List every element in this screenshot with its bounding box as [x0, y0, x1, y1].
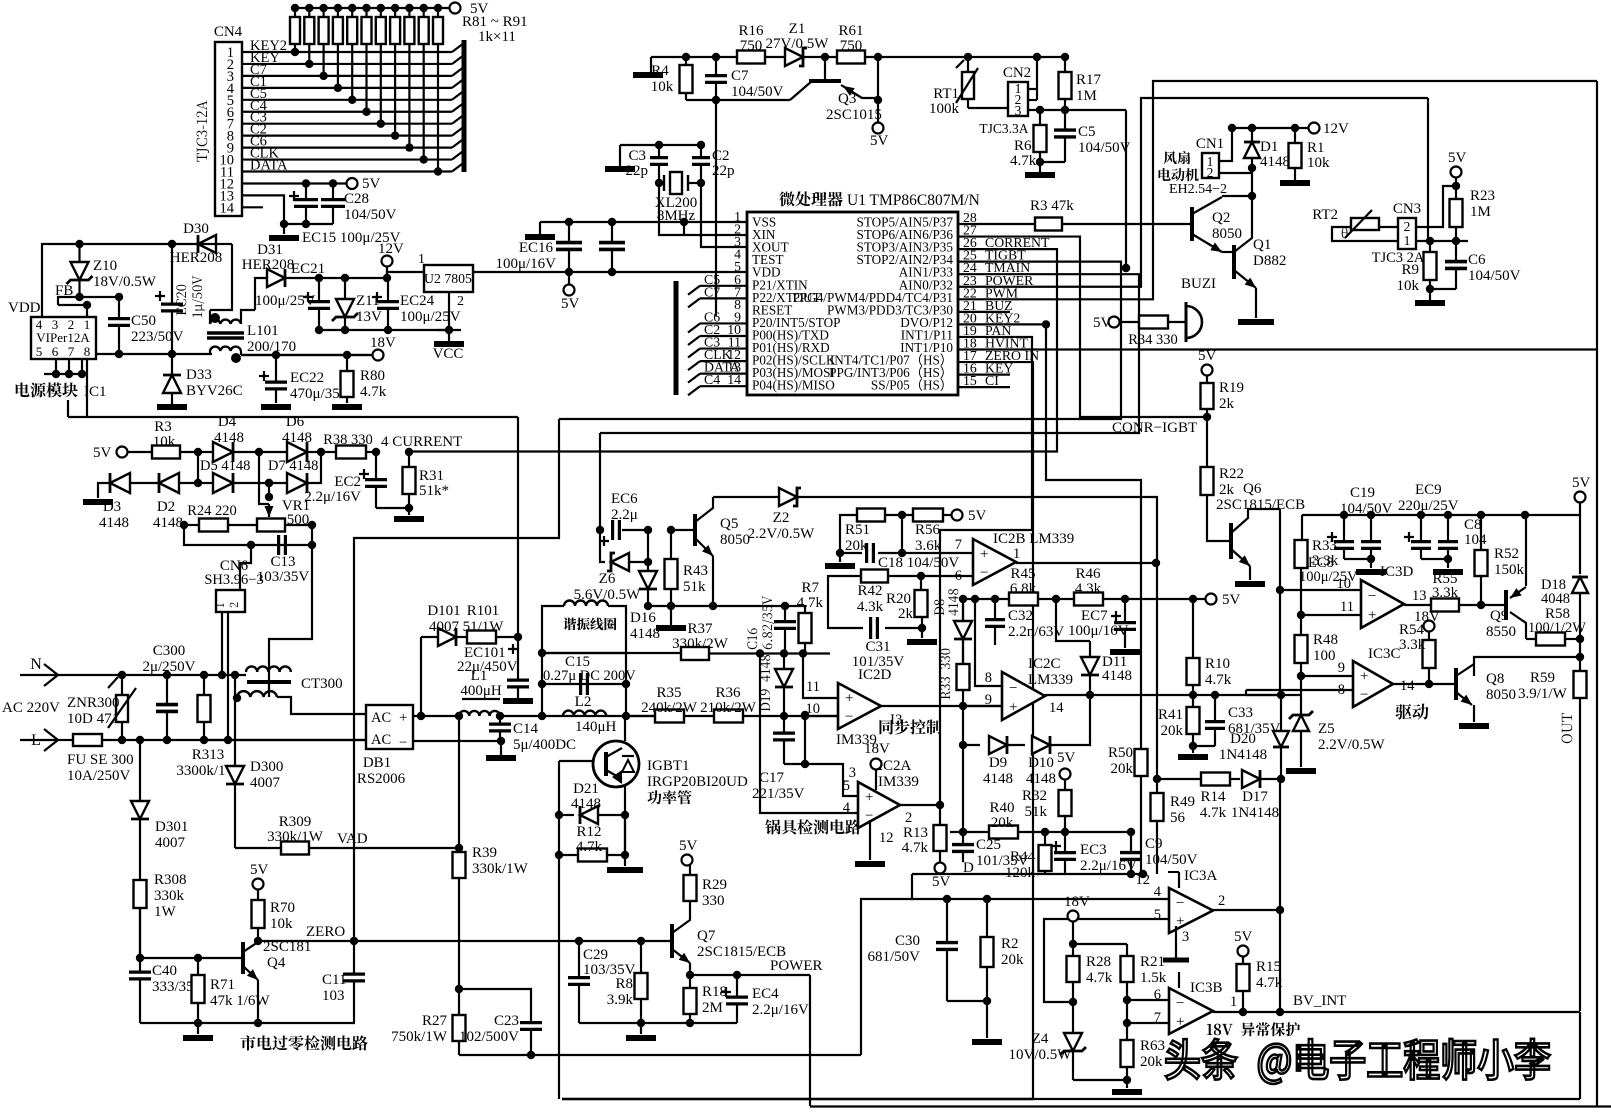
terminal 5V R15	[1238, 946, 1249, 957]
wire R27 C23 bottom	[459, 1054, 861, 1056]
svg-text:EC16: EC16	[519, 240, 554, 256]
wire IC2D pin11	[803, 654, 838, 699]
svg-text:R32: R32	[1022, 788, 1047, 804]
svg-text:Z5: Z5	[1318, 721, 1335, 737]
wire micro C4	[700, 385, 747, 387]
label drive	[1396, 704, 1429, 720]
svg-text:8050: 8050	[1212, 226, 1242, 242]
terminal 5V R29	[682, 855, 693, 866]
svg-text:5V: 5V	[1222, 592, 1241, 608]
svg-text:R45: R45	[1010, 566, 1035, 582]
wire pin25 TIGBT	[559, 262, 1121, 419]
node resistor R85 top	[348, 4, 356, 12]
resistor R40 20k	[989, 826, 1018, 839]
svg-text:IM339: IM339	[878, 774, 919, 790]
ground R6	[1025, 172, 1055, 178]
resistor R36 210k/2W	[714, 710, 743, 723]
terminal 5V R19	[1202, 365, 1213, 376]
svg-text:R56: R56	[915, 522, 941, 538]
svg-text:4148: 4148	[153, 515, 183, 531]
capacitor C33	[1205, 720, 1225, 723]
resistor R91	[433, 17, 443, 44]
ground R31	[394, 516, 424, 522]
wire IC2C pin8	[975, 599, 1002, 686]
wire CN4 pin4 row C1	[242, 87, 452, 89]
thermistor RT2	[1351, 218, 1379, 230]
wire top rail y57	[651, 56, 1065, 58]
zener Z5	[1300, 676, 1302, 714]
svg-text:7: 7	[955, 537, 962, 553]
capacitor C8	[1438, 540, 1458, 543]
diode D4 4148	[198, 451, 214, 453]
svg-text:R101: R101	[467, 603, 500, 619]
resistor R24 220	[180, 521, 188, 529]
op-amp IC3B	[1169, 988, 1213, 1034]
wire CT300 secondary out	[277, 697, 366, 714]
svg-text:10D 471: 10D 471	[67, 711, 119, 727]
svg-text:56: 56	[1170, 810, 1186, 826]
svg-text:18V: 18V	[864, 741, 890, 757]
svg-text:4 CURRENT: 4 CURRENT	[381, 434, 462, 450]
svg-text:R37: R37	[687, 621, 713, 637]
svg-text:1: 1	[1404, 233, 1411, 248]
junction R89 row	[405, 143, 413, 151]
wire DB1 + out	[413, 715, 459, 717]
svg-text:C300: C300	[153, 643, 186, 659]
IC U1 TMP86C807 box	[747, 212, 958, 395]
resistor R20 2k	[915, 590, 928, 617]
capacitor C32	[985, 618, 1005, 621]
transistor Q2 8050	[1190, 207, 1194, 241]
svg-text:EC3: EC3	[1080, 842, 1107, 858]
svg-text:51k: 51k	[1025, 804, 1048, 820]
resistor R49 56	[1151, 793, 1164, 821]
svg-text:+: +	[865, 790, 873, 806]
resistor R70 10k	[252, 900, 265, 928]
wire bottom border 1	[562, 1098, 1580, 1100]
svg-text:11: 11	[1340, 599, 1354, 615]
svg-text:13: 13	[1412, 588, 1427, 604]
capacitor C14	[489, 722, 511, 725]
node FB	[75, 293, 83, 301]
rectifier DB1 RS2006	[366, 705, 413, 749]
wire CN4 pin12 5V	[242, 182, 352, 184]
wire R82 bottom	[308, 44, 310, 64]
svg-text:C8: C8	[1464, 517, 1482, 533]
wire Q7 base row	[354, 940, 672, 942]
svg-text:4.3k: 4.3k	[857, 599, 884, 615]
svg-text:Z10: Z10	[93, 258, 117, 274]
wire C5 ribbon diagonal	[452, 91, 464, 100]
wire N line	[58, 674, 246, 676]
resistor R23 1M	[1450, 199, 1463, 227]
resistor R71 47k 1/6W	[192, 975, 205, 1003]
svg-text:R52: R52	[1494, 546, 1519, 562]
capacitor EC16	[556, 241, 582, 245]
diode D18 4048	[1579, 515, 1581, 574]
svg-text:POWER: POWER	[770, 958, 823, 974]
wire pin22 PWM	[958, 81, 1597, 299]
svg-text:100μ/25V: 100μ/25V	[255, 293, 316, 309]
svg-text:EC6: EC6	[611, 491, 638, 507]
wire R89 bottom	[408, 44, 410, 148]
wire module bottom bus	[96, 353, 119, 355]
svg-text:R59: R59	[1530, 670, 1555, 686]
svg-text:100μ/25V: 100μ/25V	[400, 309, 461, 325]
wire 5V bus resistor bank	[295, 7, 452, 9]
svg-text:11: 11	[806, 679, 820, 695]
wire C2 ribbon diagonal	[452, 127, 464, 136]
wire KEY2 ribbon diagonal	[452, 43, 464, 52]
ground Q8	[1459, 723, 1489, 729]
wire VDD xin vertical	[683, 222, 685, 235]
wire CN4 pin13 gnd	[242, 195, 333, 224]
svg-text:18V/0.5W: 18V/0.5W	[93, 274, 157, 290]
ground EC101	[503, 698, 533, 704]
zener Z2	[713, 496, 779, 498]
svg-text:IC2C: IC2C	[1028, 656, 1061, 672]
svg-text:AC: AC	[371, 732, 391, 748]
resistor R17 1M	[1059, 72, 1072, 99]
svg-text:D33: D33	[186, 367, 212, 383]
svg-text:330k/2W: 330k/2W	[672, 636, 729, 652]
wire CN6 feed	[240, 545, 251, 590]
svg-text:9: 9	[1338, 660, 1345, 676]
svg-text:DB1: DB1	[363, 755, 391, 771]
resistor R85	[347, 17, 357, 44]
terminal 5V current row	[117, 447, 128, 458]
transistor Q4 2SC181	[241, 942, 245, 974]
wire XOUT	[701, 183, 747, 247]
svg-text:Q3: Q3	[838, 91, 856, 107]
svg-text:−: −	[980, 565, 988, 581]
svg-text:−: −	[1009, 680, 1017, 696]
ground C8	[1433, 569, 1463, 575]
svg-text:240k/2W: 240k/2W	[641, 700, 698, 716]
svg-text:12V: 12V	[378, 241, 404, 257]
resistor R32 51k	[1059, 790, 1072, 816]
svg-text:C19: C19	[1350, 485, 1375, 501]
svg-text:+: +	[1009, 700, 1017, 716]
svg-text:VDD: VDD	[8, 300, 41, 316]
junction R88 row	[391, 131, 399, 139]
diode D21 4148	[559, 814, 574, 816]
svg-text:R70: R70	[270, 900, 295, 916]
capacitor C23	[459, 989, 531, 1022]
svg-text:R54: R54	[1399, 622, 1425, 638]
svg-text:330k: 330k	[154, 888, 185, 904]
svg-text:R15: R15	[1256, 959, 1281, 975]
wire DATA ribbon diagonal	[452, 163, 464, 172]
svg-text:4148: 4148	[99, 515, 129, 531]
diode D33 BYV26C	[163, 375, 181, 393]
svg-text:BV_INT: BV_INT	[1293, 993, 1346, 1009]
capacitor C9	[1120, 851, 1142, 854]
label resonant coil	[563, 618, 616, 631]
resistor R55 3.3k	[1431, 599, 1459, 612]
node resistor R81 top	[291, 4, 299, 12]
svg-text:27V/0.5W: 27V/0.5W	[766, 36, 830, 52]
wire IC3A pin3 stub	[1175, 926, 1177, 958]
node resistor R91 top	[434, 4, 442, 12]
svg-text:104: 104	[1464, 532, 1487, 548]
crystal XL200	[670, 172, 682, 194]
svg-text:10: 10	[1337, 576, 1352, 592]
svg-text:2k: 2k	[898, 606, 914, 622]
node resistor R86 top	[362, 4, 370, 12]
svg-text:R3: R3	[154, 419, 172, 435]
svg-text:10k: 10k	[1307, 155, 1330, 171]
diode D20 1N4148	[1279, 590, 1281, 695]
capacitor EC21	[303, 292, 313, 302]
svg-text:D301: D301	[155, 819, 188, 835]
resistor R35 240k/2W	[655, 710, 684, 723]
svg-text:4148: 4148	[630, 626, 660, 642]
wire I3 line to IC3C pin8	[1246, 694, 1281, 696]
wire micro C3	[700, 347, 747, 349]
terminal 12V fan	[1309, 123, 1320, 134]
node resistor R89 top	[405, 4, 413, 12]
wire IC2A pin4	[760, 654, 858, 814]
svg-text:HER208: HER208	[242, 257, 295, 273]
svg-text:D1: D1	[1260, 139, 1278, 155]
svg-text:C7: C7	[704, 284, 720, 299]
transistor Q1 D882	[1232, 245, 1236, 279]
svg-text:DATA: DATA	[250, 158, 288, 174]
wire EC8 C19 gnd	[1344, 558, 1371, 560]
ground C19	[1356, 569, 1386, 575]
svg-text:D2: D2	[157, 499, 175, 515]
transistor Q5 8050	[671, 529, 695, 531]
svg-text:20k: 20k	[1161, 723, 1184, 739]
svg-text:0.27μ DC 200V: 0.27μ DC 200V	[543, 668, 636, 684]
diode D19 4148	[783, 654, 785, 669]
wire IC3D pin10	[1280, 589, 1361, 591]
svg-text:CONR−IGBT: CONR−IGBT	[1112, 420, 1197, 436]
svg-text:TJC3.3A: TJC3.3A	[979, 121, 1028, 136]
resistor R29 330	[684, 875, 697, 901]
svg-text:5V: 5V	[870, 133, 889, 149]
wire R81 bottom	[294, 44, 296, 52]
wire 12V row	[1232, 127, 1309, 129]
ground EC15	[269, 235, 299, 241]
diode D10 4148	[1032, 736, 1050, 754]
svg-text:2: 2	[1404, 219, 1411, 234]
wire pin7 IC2B	[898, 549, 906, 557]
wire R33-330 top	[962, 597, 964, 640]
op-amp IC3D	[1361, 580, 1404, 628]
wire R88 bottom	[394, 44, 396, 136]
capacitor C2	[692, 156, 710, 159]
svg-text:−: −	[399, 735, 407, 751]
wire C30 R2 bottom	[947, 1000, 987, 1002]
svg-text:R23: R23	[1470, 188, 1495, 204]
svg-text:IRGP20BI20UD: IRGP20BI20UD	[647, 774, 748, 790]
svg-text:3: 3	[1182, 929, 1189, 945]
connector CN3 TJC3 2A	[1398, 218, 1416, 249]
svg-text:R27: R27	[422, 1013, 448, 1029]
wire IC3D pin11	[1301, 614, 1361, 616]
wire D31 out 12V rail	[285, 277, 387, 279]
resonant coil loop	[542, 606, 564, 716]
svg-text:104/50V: 104/50V	[731, 84, 784, 100]
junction EC15 top	[302, 179, 310, 187]
svg-text:R24 220: R24 220	[187, 503, 237, 519]
resistor R19 2k	[1201, 383, 1214, 409]
svg-text:C11: C11	[322, 972, 346, 988]
zener Z4	[1072, 1002, 1074, 1032]
svg-text:D16: D16	[630, 610, 656, 626]
resistor R12 4.7k	[578, 849, 607, 862]
svg-text:R81 ~ R91: R81 ~ R91	[462, 14, 528, 30]
svg-text:51k: 51k	[683, 579, 706, 595]
terminal 5V R70	[253, 879, 264, 890]
svg-text:5V: 5V	[679, 838, 698, 854]
resistor R37 330k/2W	[681, 647, 709, 660]
svg-text:IC3D: IC3D	[1380, 564, 1414, 580]
transistor Q9 8550	[1481, 604, 1505, 606]
junction R86 row	[362, 108, 370, 116]
terminal 5V CN3	[1451, 167, 1462, 178]
wire bottom to IC3A feed	[861, 899, 1169, 1055]
transistor Q6 2SC1815	[1207, 495, 1230, 541]
svg-text:P04(HS)/MISO: P04(HS)/MISO	[752, 378, 835, 393]
svg-text:Q1: Q1	[1253, 237, 1271, 253]
svg-text:14: 14	[1400, 678, 1415, 694]
svg-text:Z1: Z1	[789, 21, 806, 37]
svg-text:LM339: LM339	[1028, 672, 1073, 688]
wire CN6 pin1 down	[221, 612, 223, 675]
wire POWER bottom rail	[810, 1105, 1611, 1107]
svg-text:D4: D4	[218, 414, 237, 430]
svg-text:R22: R22	[1219, 466, 1244, 482]
svg-text:R9: R9	[1401, 262, 1419, 278]
svg-text:210k/2W: 210k/2W	[700, 700, 757, 716]
wire Q6 collector	[1231, 509, 1280, 533]
wire EC2 R31 gnd	[376, 507, 409, 509]
svg-text:3: 3	[1015, 103, 1022, 118]
wire IGBT collector	[624, 716, 626, 741]
svg-text:1: 1	[418, 252, 425, 267]
svg-text:CN3: CN3	[1393, 201, 1421, 217]
wire 18V bus long	[68, 416, 518, 418]
svg-text:1: 1	[1013, 546, 1020, 562]
svg-text:RT2: RT2	[1312, 207, 1338, 223]
svg-text:C2: C2	[712, 148, 730, 164]
svg-text:4048: 4048	[1541, 591, 1570, 607]
node resistor R90 top	[420, 4, 428, 12]
svg-text:1N4148: 1N4148	[1219, 747, 1267, 763]
svg-text:4148: 4148	[1026, 771, 1056, 787]
svg-text:4.7k: 4.7k	[1205, 672, 1232, 688]
transformer L101	[210, 313, 220, 323]
svg-text:4007: 4007	[429, 619, 460, 635]
wire R90 bottom	[423, 44, 425, 160]
op-amp IC2A	[858, 782, 900, 828]
svg-text:5.6V/0.5W: 5.6V/0.5W	[574, 587, 642, 603]
svg-text:RS2006: RS2006	[357, 771, 406, 787]
svg-text:+: +	[845, 691, 853, 707]
svg-text:4148: 4148	[214, 430, 244, 446]
svg-text:D10: D10	[1028, 755, 1054, 771]
diode D8 4148	[934, 600, 944, 616]
wire R85 bottom	[351, 44, 353, 100]
op-amp IC3A	[1169, 888, 1213, 933]
svg-text:51k*: 51k*	[419, 483, 449, 499]
capacitor C5	[1054, 128, 1076, 131]
ground D3	[83, 499, 113, 505]
resistor R7 4.7k	[785, 606, 805, 613]
wire R91 bottom	[437, 44, 439, 172]
wire pin24 TMAIN	[600, 274, 1139, 433]
svg-text:C29: C29	[583, 947, 608, 963]
wire IC2D pin10	[805, 715, 838, 717]
ribbon bus bar micro left	[674, 281, 679, 395]
capacitor C11	[353, 941, 355, 974]
svg-text:C31: C31	[865, 639, 890, 655]
capacitor C-5V	[599, 241, 625, 245]
svg-text:R33: R33	[1312, 538, 1337, 554]
diode D7 4148	[269, 482, 288, 484]
svg-text:Q9: Q9	[1490, 608, 1508, 624]
current transformer CT300	[246, 666, 291, 672]
svg-text:BYV26C: BYV26C	[186, 383, 243, 399]
op-amp IC3C	[1353, 661, 1393, 707]
svg-text:−: −	[845, 709, 853, 725]
wire CLK ribbon diagonal	[452, 151, 464, 160]
svg-text:10V/0.5W: 10V/0.5W	[1009, 1047, 1073, 1063]
svg-text:+: +	[980, 547, 988, 563]
resistor R2 20k	[981, 937, 994, 967]
wire CN2 pin3 row	[1028, 109, 1126, 111]
wire IGBT emitter taps	[624, 815, 626, 855]
capacitor C29	[575, 937, 583, 945]
capacitor C40	[129, 970, 151, 973]
resistor R86	[362, 17, 372, 44]
terminal 5V resistor bank	[450, 3, 461, 14]
zener Z1	[785, 48, 803, 66]
ground left of R4	[650, 57, 652, 72]
wire VR1 wiper feed	[259, 452, 269, 504]
resistor R50 20k	[1135, 749, 1148, 776]
diode D17 1N4148	[1242, 770, 1260, 788]
wire IC2C output 14	[1045, 694, 1301, 696]
svg-text:22p: 22p	[626, 163, 649, 179]
resistor R83	[319, 17, 329, 44]
svg-text:D6: D6	[286, 414, 305, 430]
wire VAD row	[235, 847, 281, 849]
wire R9 C6 gnd	[1430, 288, 1456, 290]
wire CN4 pin10 row CLK	[242, 158, 452, 160]
svg-text:CT300: CT300	[301, 676, 343, 692]
wire R42 left leg	[828, 576, 863, 628]
wire pin15 CI stub	[958, 386, 1010, 388]
wire D4 D5 junction	[197, 452, 199, 483]
svg-text:VCC: VCC	[433, 346, 464, 362]
svg-text:R7: R7	[801, 580, 819, 596]
svg-text:AC: AC	[371, 710, 391, 726]
label sync control	[880, 719, 942, 734]
resistor R6 4.7k	[1034, 125, 1047, 152]
wire D101 tap	[420, 700, 422, 716]
resistor R48 100	[1295, 635, 1308, 663]
ground EC22	[261, 404, 291, 410]
svg-text:R2: R2	[1001, 936, 1019, 952]
terminal N input	[20, 674, 56, 676]
wire Q6 collector to D20 column	[1279, 509, 1281, 590]
wire RT2 to CN3	[1379, 226, 1398, 228]
svg-text:D20: D20	[1230, 731, 1256, 747]
